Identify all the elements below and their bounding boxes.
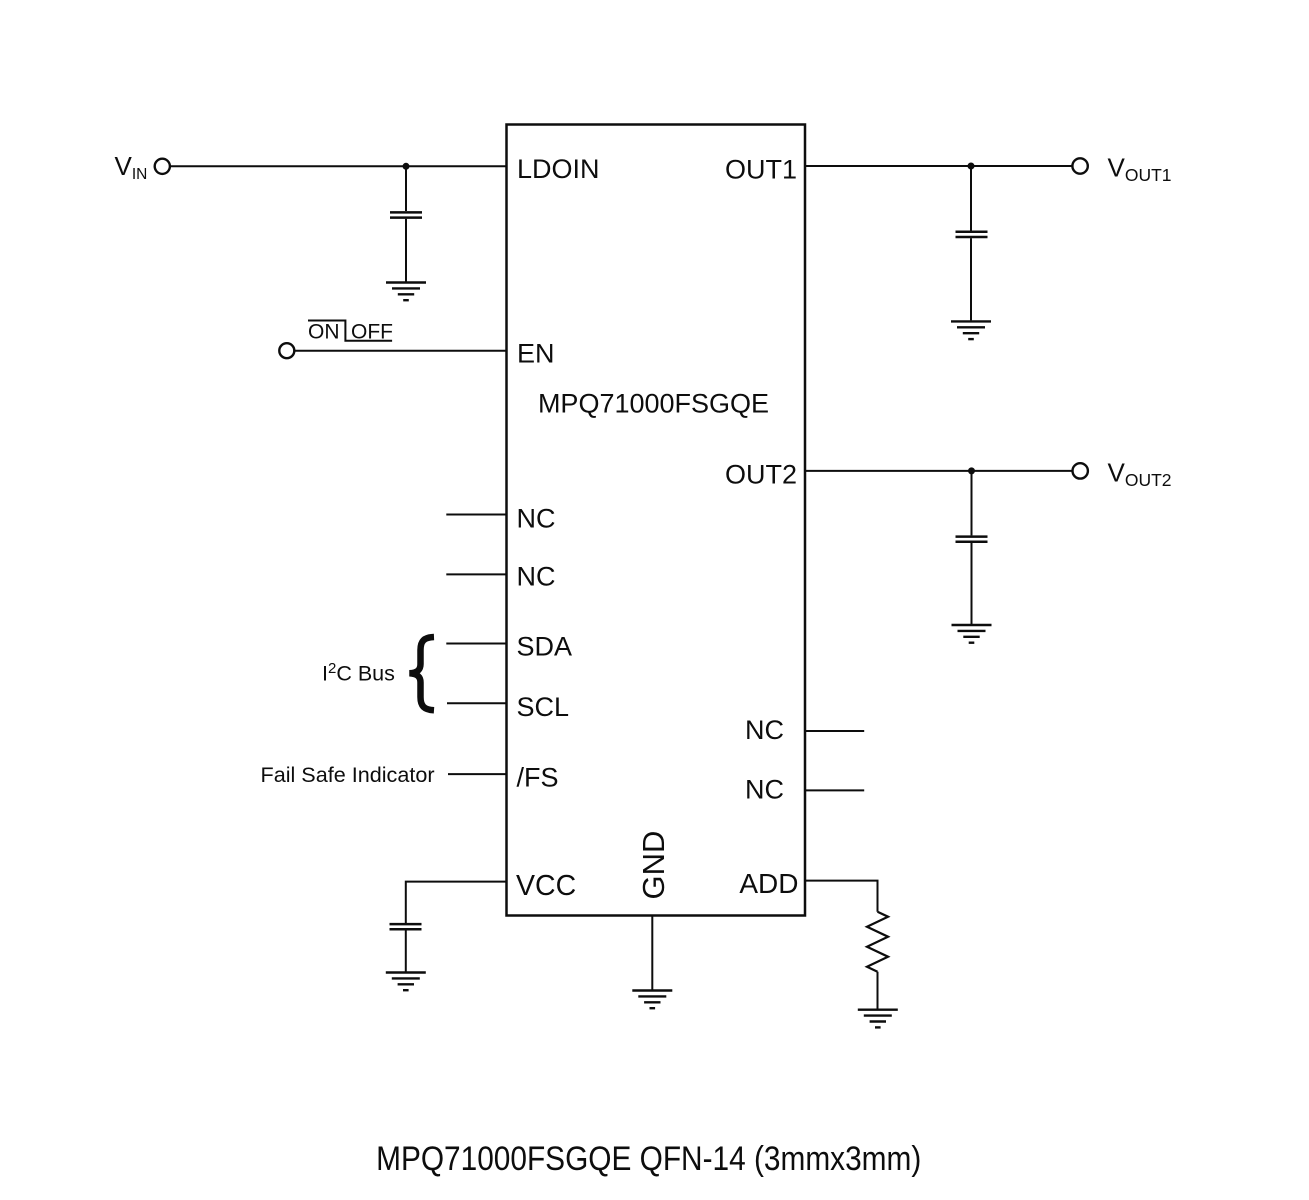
wire OUT1 pin to VOUT1 terminal [805, 165, 1072, 167]
node VOUT1 terminal [1072, 158, 1087, 173]
svg-text:VIN: VIN [115, 151, 148, 183]
capacitor C_IN plates [390, 212, 422, 217]
wire ADD pin to resistor [805, 881, 878, 912]
resistor R_ADD [867, 912, 888, 972]
svg-text:SCL: SCL [517, 692, 570, 722]
svg-text:LDOIN: LDOIN [517, 154, 600, 184]
svg-text:/FS: /FS [517, 762, 559, 792]
ground (GND pin) [632, 991, 672, 1009]
stub NC left lower [446, 573, 506, 575]
wire OUT2 pin to VOUT2 terminal [805, 470, 1073, 472]
stub SDA [446, 643, 506, 645]
junction VIN / input cap [403, 163, 410, 170]
node VOUT2 terminal [1073, 463, 1088, 478]
node VIN terminal [155, 159, 170, 174]
ground (VCC cap) [386, 973, 426, 991]
capacitor C_OUT2 plates [956, 537, 988, 542]
svg-text:NC: NC [517, 504, 556, 534]
svg-text:MPQ71000FSGQE QFN-14 (3mmx3mm): MPQ71000FSGQE QFN-14 (3mmx3mm) [376, 1139, 921, 1177]
stub NC left upper [446, 514, 506, 516]
stub NC right upper [805, 730, 864, 732]
svg-text:VOUT1: VOUT1 [1108, 153, 1172, 185]
wire junction to input capacitor [405, 166, 407, 211]
brace I2C bus [410, 637, 435, 710]
wire output capacitor 1 to ground [970, 238, 972, 320]
svg-text:MPQ71000FSGQE: MPQ71000FSGQE [538, 389, 769, 419]
svg-text:ADD: ADD [739, 868, 798, 899]
stub SCL [447, 702, 507, 704]
wire VCC pin to bypass capacitor [406, 882, 507, 923]
wire GND pin to ground [651, 916, 653, 990]
svg-text:GND: GND [636, 831, 671, 900]
svg-text:VCC: VCC [516, 870, 576, 902]
svg-text:SDA: SDA [517, 631, 573, 661]
capacitor C_VCC plates [390, 924, 422, 929]
IC U1 MPQ71000FSGQE body [507, 125, 806, 916]
wire VIN to LDOIN pin [170, 165, 507, 167]
wire junction to output capacitor 1 [970, 166, 972, 231]
svg-text:I2C Bus: I2C Bus [322, 660, 395, 685]
ground (ADD resistor) [858, 1010, 898, 1028]
ground (input cap) [386, 283, 426, 301]
svg-text:OUT1: OUT1 [725, 155, 797, 185]
svg-text:EN: EN [517, 339, 555, 369]
ground (OUT2 cap) [952, 625, 992, 643]
wire VCC capacitor to ground [405, 931, 407, 972]
svg-text:OUT2: OUT2 [725, 459, 797, 489]
label ON/OFF (EN control) [308, 321, 393, 344]
junction OUT2 / output cap 2 [968, 467, 975, 474]
junction OUT1 / output cap 1 [968, 163, 975, 170]
wire resistor to ground [877, 972, 879, 1009]
stub NC right lower [805, 789, 864, 791]
wire EN terminal to EN pin [294, 350, 506, 352]
ground (OUT1 cap) [951, 321, 991, 339]
wire junction to output capacitor 2 [971, 471, 973, 536]
capacitor C_OUT1 plates [956, 232, 988, 237]
svg-text:ON: ON [308, 321, 340, 344]
svg-text:NC: NC [745, 715, 784, 745]
svg-text:VOUT2: VOUT2 [1108, 458, 1172, 490]
svg-text:NC: NC [517, 561, 556, 591]
wire input capacitor to ground [405, 219, 407, 282]
node EN terminal [279, 343, 294, 358]
svg-text:NC: NC [745, 775, 784, 805]
svg-text:Fail Safe Indicator: Fail Safe Indicator [261, 762, 435, 787]
stub /FS [448, 773, 507, 775]
wire output capacitor 2 to ground [971, 543, 973, 624]
